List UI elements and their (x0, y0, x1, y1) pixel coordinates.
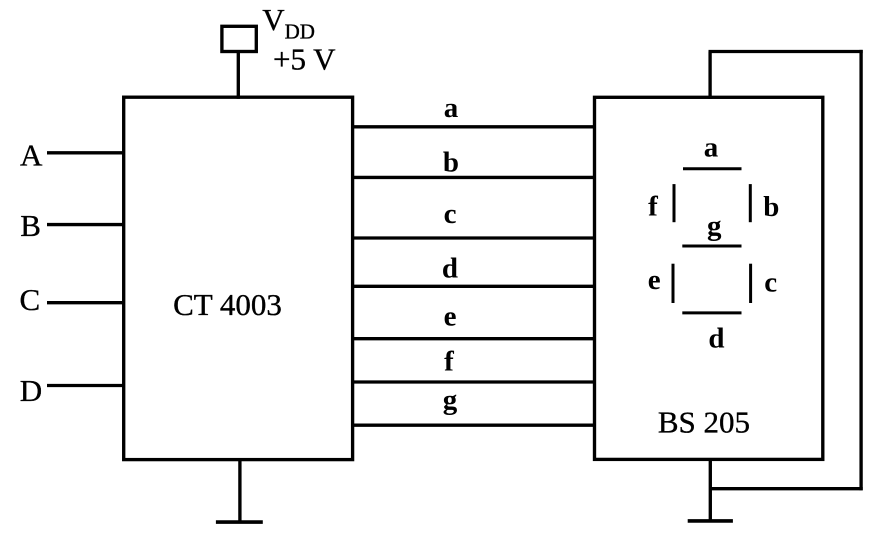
label segment d (708, 323, 724, 355)
wire c (353, 236, 595, 239)
wire f (353, 380, 595, 383)
wire d (353, 285, 595, 288)
label CT 4003 (173, 287, 282, 322)
wire a (353, 125, 595, 128)
label segment f (648, 191, 658, 223)
wire display top to rail (708, 52, 711, 99)
svg-text:e: e (648, 264, 661, 296)
wire e (353, 337, 595, 340)
node D label (20, 373, 42, 408)
svg-text:e: e (444, 301, 457, 333)
svg-text:CT 4003: CT 4003 (173, 287, 282, 322)
segment a (683, 167, 742, 170)
svg-text:a: a (444, 92, 459, 124)
IC U1 CT 4003 (124, 97, 353, 459)
ground (left) (216, 460, 263, 522)
svg-text:g: g (707, 210, 722, 242)
svg-text:c: c (764, 267, 777, 299)
label wire g (443, 384, 458, 416)
wire VDD to U1 (237, 52, 240, 99)
segment e (672, 264, 675, 303)
label +5 V (273, 42, 336, 77)
svg-text:C: C (20, 282, 41, 317)
wire g (353, 424, 595, 427)
display U2 BS 205 (595, 97, 823, 459)
segment b (749, 184, 752, 222)
label wire b (443, 147, 459, 179)
svg-text:c: c (444, 198, 457, 230)
svg-text:A: A (20, 138, 43, 173)
power symbol VDD (222, 26, 256, 51)
label wire d (442, 253, 458, 285)
svg-text:BS 205: BS 205 (658, 405, 750, 440)
svg-text:f: f (444, 346, 454, 378)
node C label (20, 282, 41, 317)
segment d (682, 311, 741, 314)
svg-text:d: d (442, 253, 458, 285)
node A label (20, 138, 43, 173)
wire input B (47, 223, 124, 226)
label VDD (262, 2, 315, 43)
segment f (673, 184, 676, 222)
label wire a (444, 92, 459, 124)
svg-text:VDD: VDD (262, 2, 315, 43)
svg-text:b: b (763, 191, 779, 223)
wire input D (47, 384, 124, 387)
label wire e (444, 301, 457, 333)
label segment c (764, 267, 777, 299)
wire b (353, 176, 595, 179)
wire input C (47, 301, 124, 304)
svg-text:+5 V: +5 V (273, 42, 336, 77)
label wire f (444, 346, 454, 378)
label segment e (648, 264, 661, 296)
svg-text:d: d (708, 323, 724, 355)
label segment a (704, 132, 719, 164)
segment c (749, 264, 752, 303)
svg-text:g: g (443, 384, 458, 416)
svg-text:D: D (20, 373, 42, 408)
wire input A (47, 151, 124, 154)
label BS 205 (658, 405, 750, 440)
ground (right) (688, 519, 733, 523)
wire bottom rail (710, 487, 862, 490)
label segment g (707, 210, 722, 242)
svg-text:b: b (443, 147, 459, 179)
label segment b (763, 191, 779, 223)
label wire c (444, 198, 457, 230)
wire top rail (709, 50, 863, 53)
svg-text:a: a (704, 132, 719, 164)
wire right rail (859, 50, 862, 490)
svg-text:f: f (648, 191, 658, 223)
svg-text:B: B (20, 208, 41, 243)
segment g (682, 245, 741, 248)
node B label (20, 208, 41, 243)
wire display bottom to ground (709, 459, 712, 521)
